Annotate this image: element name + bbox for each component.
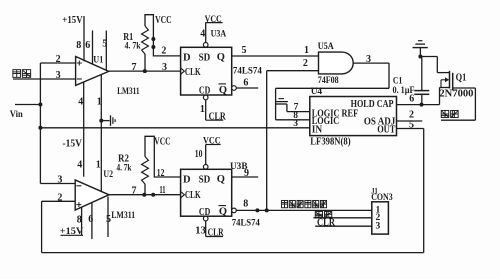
svg-text:SD: SD [199,52,211,63]
ground symbol at U4 logic ref [276,101,288,103]
wire: Vin input stub [15,104,40,106]
node: junction to U5A input2 [265,208,269,212]
svg-text:4: 4 [78,96,83,107]
U2 pin 5 stub [107,197,109,238]
node: R2 junction on U2 output [142,193,146,197]
U1 pin 4 / U2 pin 4 supply wire (-15V) [83,82,85,177]
svg-text:SD: SD [199,174,211,185]
resistor R2 4.7k pull-up [142,157,149,185]
svg-text:3: 3 [162,62,167,73]
wire: ground stub [101,120,109,122]
svg-text:VCC: VCC [155,15,172,26]
wire: R1 bottom to U1 output [144,54,146,71]
wire: U1 output to U3A CLK [109,70,181,72]
wire: down to U4 LOGIC pin8 [275,88,277,120]
svg-text:VCC: VCC [203,136,221,146]
svg-text:U5A: U5A [318,42,334,52]
node: Vin to IN-line junction [38,126,42,130]
wire: ground to Q1 drain [420,56,437,58]
svg-text:1: 1 [200,104,205,115]
svg-text:4. 7k: 4. 7k [125,42,142,52]
node: ground tap [99,119,103,123]
connector J1 CON3 [372,202,389,234]
svg-text:Q: Q [217,52,225,63]
U3A Qbar bubble pin6 stub [232,86,237,91]
wire: J1 pin2 discharge [313,217,371,219]
svg-text:6: 6 [243,78,248,89]
svg-text:5: 5 [409,119,414,130]
svg-text:D: D [183,52,191,63]
resistor R1 4.7k pull-up [142,26,149,54]
svg-text:6: 6 [88,214,93,225]
wire: Vin line to U4 IN pin3 [40,127,309,129]
wire: vertical to U5A input2 [266,71,268,211]
flip-flop U3B 74LS74 [181,169,232,216]
U3B CD bubble pin13 to CLR [203,216,208,221]
svg-text:3: 3 [57,175,62,186]
U2 pin 6 stub [91,203,93,239]
svg-text:CLK: CLK [185,190,201,201]
wire: AND output return left [276,87,389,89]
svg-text:0. 1µF: 0. 1µF [393,86,415,96]
wire: U4 OUT pin5 [397,128,424,130]
svg-text:7: 7 [132,186,137,197]
svg-text:13: 13 [195,226,206,237]
wire: U1 pin2 input [40,62,75,64]
wire: U3A Q pin5 to U5A input1 [232,55,319,57]
svg-text:5: 5 [106,214,111,225]
svg-text:5: 5 [242,45,247,56]
svg-text:CLK: CLK [185,67,201,78]
svg-text:LF398N(8): LF398N(8) [310,136,350,147]
svg-text:U2: U2 [103,169,113,179]
U1 pin 1 / U2 pin 1 ground wire [100,75,102,192]
wire: feedback loop bottom [41,201,43,252]
svg-text:4: 4 [77,159,82,170]
svg-text:2: 2 [161,46,166,57]
wire: U4 HOLD CAP pin6 [397,104,440,106]
sample-hold U4 LF398N [310,97,397,136]
svg-text:74LS74: 74LS74 [232,219,260,229]
wire: U4 OS ADJ pin2 stub [397,120,423,122]
wire: Vin vertical bus [39,63,41,184]
svg-text:OUT: OUT [377,125,395,136]
ground symbol (rotated) [110,115,112,126]
net label: xia-yu (lower threshold) [13,70,21,78]
op-amp U1 LM311 [76,57,109,86]
transistor Q1 2N7000 [437,72,449,74]
svg-text:2: 2 [57,193,62,204]
node: C1 junction on pin6 wire [420,103,424,107]
U2 pin 8 supply (+15V) [81,207,83,235]
wire: U5A input2 horizontal [267,70,319,72]
svg-text:Q1: Q1 [456,73,467,84]
svg-text:7: 7 [294,103,299,113]
wire: U2 pin3 input (Vin) [40,183,75,185]
svg-text:LM311: LM311 [117,87,140,97]
svg-text:1: 1 [97,96,102,107]
wire: R1 top hook to VCC rail [145,15,181,56]
U1 pin 8 supply wire (+15V) [83,16,85,61]
U3A CLK wedge [181,68,185,74]
svg-text:LM311: LM311 [111,211,135,221]
svg-text:10: 10 [195,149,203,160]
node: second junction on U2 output [151,193,155,197]
svg-text:VCC: VCC [154,137,170,148]
svg-text:74F08: 74F08 [318,76,339,86]
svg-text:3: 3 [376,222,381,232]
wire: U3B Q pin9 stub [232,176,259,178]
U3A CD bubble pin1 to CLR [203,95,208,100]
Q1 source stub [440,87,450,89]
svg-text:2N7000: 2N7000 [439,88,473,99]
svg-text:12: 12 [157,168,165,179]
svg-text:9: 9 [244,168,249,179]
U1 pin 6 stub [92,31,94,65]
svg-text:U3A: U3A [211,29,227,39]
svg-text:VCC: VCC [205,15,222,25]
svg-text:2: 2 [303,58,308,69]
svg-text:2: 2 [56,54,61,65]
svg-text:4: 4 [200,28,205,39]
svg-text:CLR: CLR [208,228,225,239]
wire: U2 pin2 input (feedback) [42,200,76,202]
svg-text:U4: U4 [311,87,323,97]
svg-text:CD: CD [199,85,211,96]
svg-text:8: 8 [77,215,82,226]
op-amp U2 LM311 [75,180,109,210]
flip-flop U3A 74LS74 [181,47,232,95]
svg-text:8: 8 [76,40,81,51]
capacitor C1 0.1uF [421,57,423,91]
node: on VCC/D wire [151,37,155,41]
svg-text:3: 3 [293,119,298,129]
svg-text:-15V: -15V [63,139,83,150]
wire: R2 bottom to U2 output [144,184,146,195]
net label: fang-dian (discharge) [441,110,449,117]
svg-text:Q: Q [219,85,227,96]
svg-text:U1: U1 [93,54,103,64]
svg-text:3: 3 [366,54,371,65]
node: junction on pin8 wire [255,208,259,212]
U3B Qbar bubble pin8 to J1 pin1 [232,208,237,213]
ground symbol top right [419,48,421,57]
svg-text:Q: Q [219,207,227,218]
svg-text:CON3: CON3 [371,193,393,203]
wire: Q1 gate to discharge net [453,87,476,89]
svg-text:3: 3 [56,70,61,81]
node: on VCC/D wire 2 [151,45,155,49]
svg-text:1: 1 [96,159,101,170]
wire: J1 pin3 CLR [315,225,372,227]
U3B CLK wedge [181,192,185,198]
node: R1 junction on U1 output [143,69,147,73]
wire: AND output down [388,63,390,88]
wire: lower-threshold input to U1 pin3 [13,78,76,80]
wire: R2 top hook to VCC rail [145,136,181,177]
wire: U4 LOGIC REF pin7 to ground [287,111,310,113]
svg-text:D: D [183,174,191,185]
U3B SD bubble pin10 to VCC [203,165,208,170]
svg-text:Q: Q [217,174,225,185]
svg-text:1: 1 [304,45,309,56]
svg-text:+15V: +15V [62,15,83,26]
AND gate U5A 74F08 [319,52,354,74]
svg-text:8: 8 [243,199,248,210]
svg-text:5: 5 [102,38,107,49]
node: Vin junction [38,103,42,107]
svg-text:74LS74: 74LS74 [233,66,262,76]
net label: fang-dian at J1 [315,211,322,217]
net label: interrupt-to-MCU (gei dan pian ji zhong duan) [281,200,287,207]
U3A SD bubble pin4 to VCC [203,43,208,48]
svg-text:Vin: Vin [10,110,24,120]
svg-text:11: 11 [159,185,165,196]
svg-text:4. 7k: 4. 7k [117,164,133,174]
svg-text:CLR: CLR [209,111,227,122]
svg-text:7: 7 [132,62,137,73]
U1 pin 5 stub [105,31,107,71]
Q1 body arrow [441,79,445,81]
wire: U5A output pin3 [353,62,389,64]
node: ground junction top right [418,55,422,59]
svg-text:IN: IN [312,125,323,136]
svg-text:6: 6 [85,40,90,51]
svg-text:+15V: +15V [60,227,84,237]
svg-text:CLR: CLR [317,218,336,229]
wire: U2 output to U3B CLK [109,194,181,196]
